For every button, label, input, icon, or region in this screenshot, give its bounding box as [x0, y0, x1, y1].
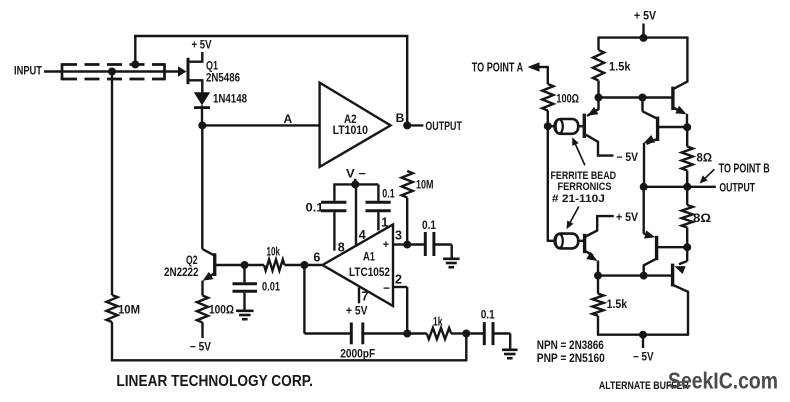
svg-text:4: 4 — [359, 228, 366, 242]
svg-text:0.1: 0.1 — [382, 189, 395, 201]
svg-text:100Ω: 100Ω — [209, 305, 234, 317]
svg-text:8Ω: 8Ω — [693, 213, 711, 225]
svg-text:− 5V: − 5V — [633, 352, 654, 364]
svg-text:2: 2 — [395, 273, 402, 287]
svg-text:V −: V − — [346, 167, 366, 181]
svg-text:LINEAR TECHNOLOGY CORP.: LINEAR TECHNOLOGY CORP. — [116, 373, 313, 390]
svg-text:1: 1 — [381, 216, 388, 230]
svg-text:A: A — [284, 112, 293, 126]
svg-text:− 5V: − 5V — [617, 152, 639, 164]
svg-text:2000pF: 2000pF — [340, 349, 375, 361]
svg-text:0.1: 0.1 — [306, 203, 325, 215]
svg-text:+: + — [383, 239, 389, 251]
svg-text:FERRONICS: FERRONICS — [558, 181, 612, 193]
svg-text:10M: 10M — [118, 305, 140, 317]
svg-text:8: 8 — [338, 241, 345, 255]
svg-text:0.01: 0.01 — [262, 282, 280, 294]
svg-text:10M: 10M — [416, 180, 434, 192]
svg-text:INPUT: INPUT — [14, 66, 42, 78]
svg-text:8Ω: 8Ω — [697, 153, 713, 165]
svg-text:A1: A1 — [363, 250, 375, 264]
svg-text:6: 6 — [313, 251, 320, 265]
svg-text:+ 5V: + 5V — [192, 40, 212, 52]
svg-text:SeekIC.com: SeekIC.com — [668, 368, 778, 394]
svg-text:10k: 10k — [267, 247, 281, 259]
svg-text:1.5k: 1.5k — [609, 62, 631, 74]
svg-text:− 5V: − 5V — [190, 342, 211, 354]
svg-text:100Ω: 100Ω — [556, 93, 579, 105]
svg-text:1k: 1k — [433, 317, 443, 329]
svg-text:OUTPUT: OUTPUT — [719, 180, 755, 194]
svg-text:+ 5V: + 5V — [346, 306, 368, 318]
svg-text:LT1010: LT1010 — [333, 123, 369, 137]
svg-text:0.1: 0.1 — [422, 220, 437, 232]
svg-text:7: 7 — [362, 290, 369, 304]
svg-text:TO POINT A: TO POINT A — [472, 60, 523, 74]
svg-text:+ 5V: + 5V — [634, 11, 656, 23]
svg-text:TO POINT B: TO POINT B — [719, 162, 770, 176]
svg-text:3: 3 — [395, 229, 402, 243]
svg-text:PNP = 2N5160: PNP = 2N5160 — [537, 353, 605, 365]
svg-text:2N5486: 2N5486 — [206, 71, 240, 85]
svg-text:0.1: 0.1 — [481, 310, 496, 322]
svg-text:OUTPUT: OUTPUT — [425, 119, 462, 133]
svg-text:1.5k: 1.5k — [607, 299, 628, 311]
svg-text:NPN = 2N3866: NPN = 2N3866 — [537, 340, 604, 352]
svg-text:2N2222: 2N2222 — [164, 265, 199, 279]
svg-text:# 21-110J: # 21-110J — [552, 193, 605, 205]
svg-text:B: B — [396, 111, 405, 125]
svg-text:1N4148: 1N4148 — [213, 92, 247, 106]
svg-text:+ 5V: + 5V — [616, 212, 638, 224]
svg-text:LTC1052: LTC1052 — [349, 267, 390, 279]
svg-text:−: − — [383, 281, 390, 295]
